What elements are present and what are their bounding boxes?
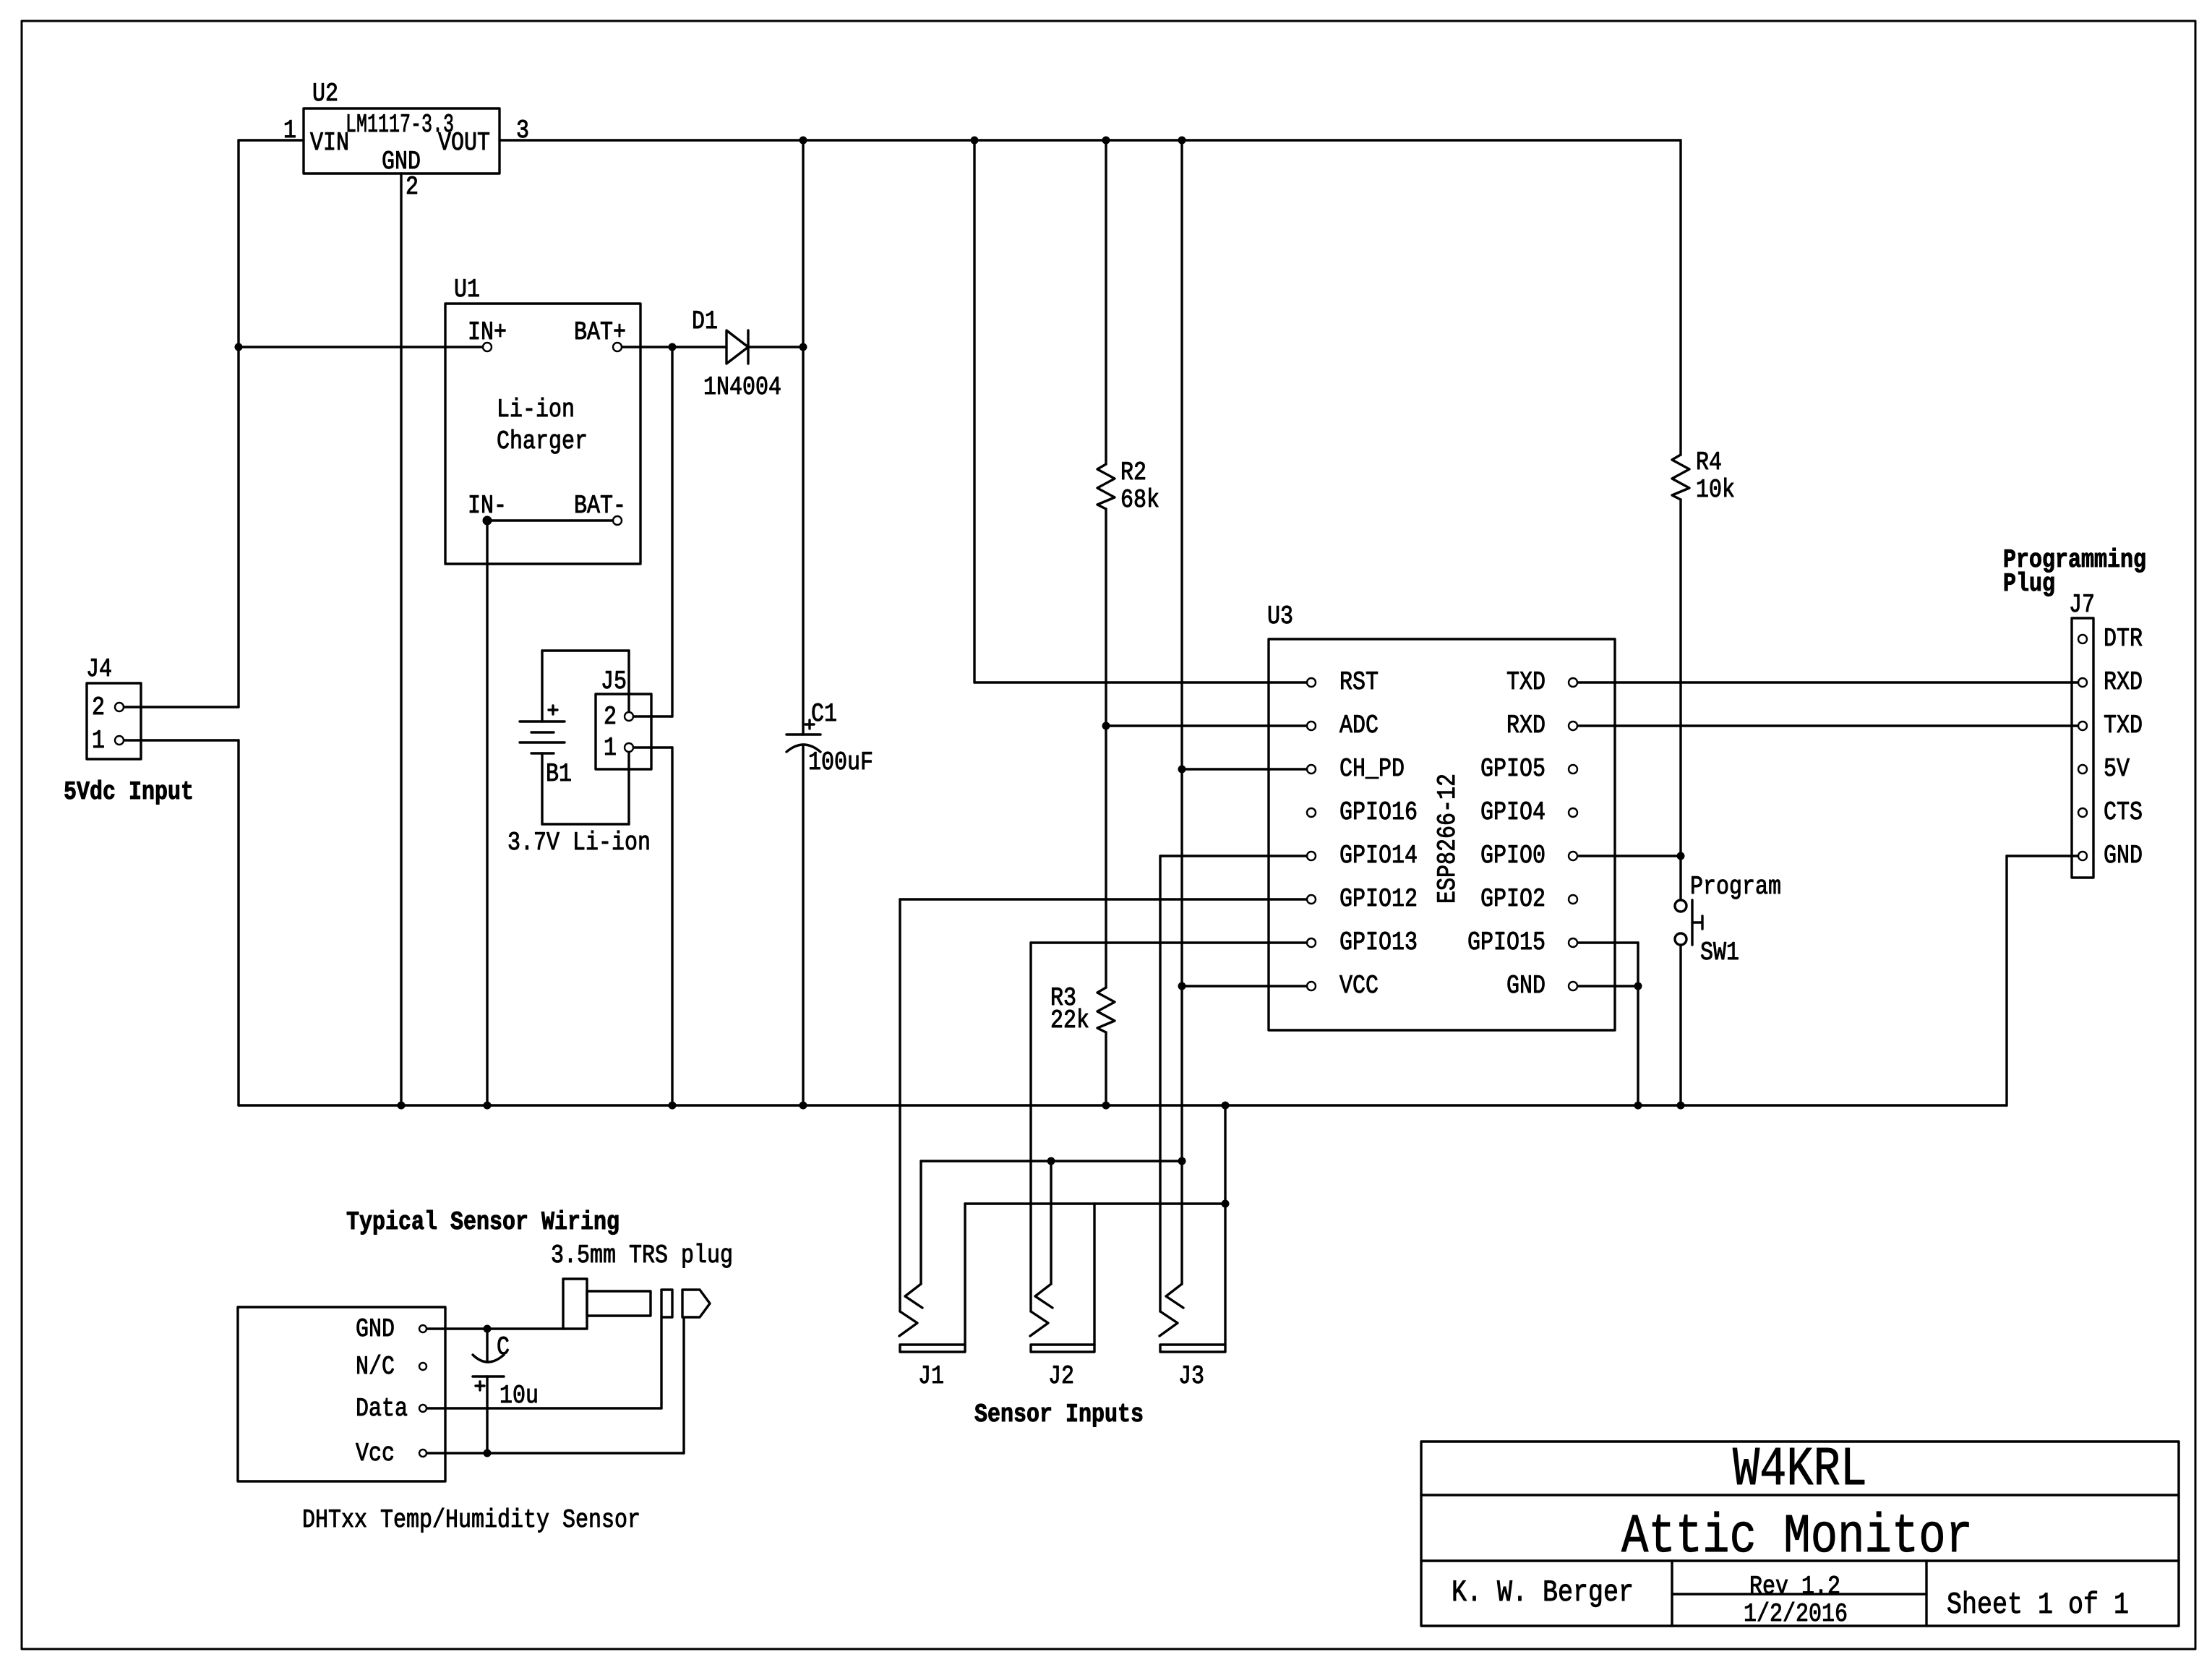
- svg-text:Rev 1.2: Rev 1.2: [1749, 1572, 1840, 1601]
- wire J3 sleeve to ground bus: [1224, 1105, 1226, 1345]
- pin U3 GPIO14: [1307, 852, 1316, 860]
- wire DHT Vcc: [427, 1452, 684, 1454]
- svg-text:GND: GND: [1506, 971, 1546, 1001]
- wire U1 IN- to BAT-: [487, 519, 613, 521]
- svg-text:C: C: [497, 1332, 510, 1362]
- wire U1 IN+ input: [239, 346, 483, 348]
- pin J7 GND: [2078, 852, 2087, 860]
- svg-text:Plug: Plug: [2003, 569, 2055, 599]
- pin U1 IN+: [483, 343, 492, 351]
- wire VCC pin: [1182, 985, 1307, 987]
- junction at 2266,1529: [1634, 1102, 1642, 1110]
- svg-text:DTR: DTR: [2104, 624, 2143, 654]
- pin U3 VCC: [1307, 982, 1316, 990]
- svg-text:2: 2: [604, 702, 617, 732]
- wire J2 ring vertical: [1050, 1161, 1052, 1284]
- wire into J5 pin2 from top: [627, 651, 630, 712]
- svg-text:Charger: Charger: [497, 427, 588, 456]
- pin U3 GPIO13: [1307, 938, 1316, 947]
- wire cap C top: [486, 1329, 488, 1362]
- svg-text:U3: U3: [1267, 601, 1293, 631]
- wire J4 pin2 to VIN vertical: [237, 140, 239, 707]
- wire J5 pin2 to battery node: [633, 715, 672, 717]
- wire J3 ring vertical: [1180, 1161, 1183, 1284]
- wire J4 pin1 to ground bus vertical: [237, 740, 239, 1105]
- pin J7 DTR: [2078, 635, 2087, 643]
- capacitor C bottom plate: [473, 1375, 504, 1378]
- junction at 1454,1606: [1047, 1157, 1055, 1165]
- svg-text:GND: GND: [356, 1314, 395, 1344]
- plug barrel: [587, 1291, 651, 1316]
- wire B1 bottom horizontal: [542, 823, 629, 825]
- pin U1 BAT-: [613, 516, 622, 525]
- svg-text:C1: C1: [811, 699, 837, 729]
- connector J4 body: [87, 683, 141, 759]
- junction at 1695,1529: [1222, 1102, 1230, 1110]
- wire RXD to programming plug: [1577, 724, 2078, 727]
- svg-text:GPIO16: GPIO16: [1339, 797, 1418, 827]
- pin U3 GPIO0: [1569, 852, 1577, 860]
- wire R3 to ground bus: [1105, 1032, 1107, 1105]
- junction at 1111,480: [800, 343, 807, 351]
- wire CH_PD pin: [1182, 768, 1307, 770]
- pin J5-1: [625, 743, 633, 752]
- wire U2 pin1 VIN: [239, 139, 304, 141]
- pin J7 TXD: [2078, 721, 2087, 730]
- wire U1 BAT+ to D1 anode: [622, 346, 726, 348]
- wire GPIO14 to J3 tip: [1159, 856, 1161, 1311]
- jack J1 sleeve plate: [900, 1345, 965, 1352]
- junction at 674,2010: [484, 1450, 492, 1457]
- jack J3 tip contact: [1159, 1311, 1178, 1336]
- junction at 1635,1064: [1178, 766, 1186, 774]
- pin DHT Vcc: [419, 1450, 426, 1457]
- resistor R4: [1672, 455, 1689, 500]
- wire D1 cathode to C1 node: [748, 346, 803, 348]
- junction at 1635,1606: [1178, 1157, 1186, 1165]
- svg-text:68k: 68k: [1120, 485, 1159, 515]
- diode D1 triangle: [726, 330, 748, 364]
- jack J2 tip contact: [1030, 1311, 1048, 1336]
- junction at 1111,1529: [800, 1102, 807, 1110]
- svg-text:Sensor Inputs: Sensor Inputs: [974, 1400, 1144, 1429]
- capacitor C1 top plate: [786, 733, 820, 736]
- wire DHT GND to plug: [427, 1327, 564, 1329]
- svg-text:GND: GND: [2104, 841, 2143, 870]
- svg-text:SW1: SW1: [1700, 938, 1739, 967]
- wire J1 ring vertical: [919, 1161, 922, 1284]
- svg-text:GPIO12: GPIO12: [1339, 884, 1418, 914]
- svg-text:Data: Data: [356, 1394, 408, 1423]
- wire Data to plug ring: [660, 1317, 662, 1408]
- svg-text:RXD: RXD: [2104, 667, 2143, 697]
- capacitor C1 polarity plus: [805, 720, 814, 729]
- pin U1 BAT+: [613, 343, 622, 351]
- svg-text:ADC: ADC: [1339, 711, 1379, 740]
- wire GPIO14 pin: [1160, 855, 1307, 857]
- junction at 930,1529: [669, 1102, 677, 1110]
- svg-text:1/2/2016: 1/2/2016: [1744, 1599, 1848, 1629]
- wire GPIO12 pin: [900, 898, 1307, 900]
- capacitor C polarity plus: [476, 1382, 484, 1390]
- wire J4 pin1 horizontal: [124, 739, 239, 741]
- wire 3.3V rail from U2 VOUT: [500, 139, 1681, 141]
- svg-text:J1: J1: [918, 1361, 944, 1391]
- svg-text:RXD: RXD: [1506, 711, 1546, 740]
- pin U3 GPIO5: [1569, 765, 1577, 774]
- svg-text:DHTxx Temp/Humidity Sensor: DHTxx Temp/Humidity Sensor: [302, 1505, 640, 1535]
- wire J7 GND to ground bus: [2005, 856, 2007, 1105]
- switch SW1 actuator stem: [1692, 916, 1702, 929]
- wire rail to RST vertical: [973, 140, 975, 682]
- svg-text:N/C: N/C: [356, 1352, 395, 1382]
- jack J1 ring contact: [905, 1284, 922, 1308]
- pin J7 5V: [2078, 765, 2087, 774]
- wire sensor sleeve link: [965, 1202, 1225, 1204]
- svg-text:CH_PD: CH_PD: [1339, 754, 1405, 784]
- wire R2 to ADC to R3: [1105, 509, 1107, 988]
- svg-text:GPIO4: GPIO4: [1480, 797, 1546, 827]
- wire U2 pin2 GND vertical: [400, 174, 402, 1105]
- pin J4-2: [115, 703, 124, 711]
- svg-text:GPIO5: GPIO5: [1480, 754, 1546, 784]
- pin J7 RXD: [2078, 678, 2087, 687]
- sensor DHTxx body: [238, 1307, 445, 1481]
- pin U3 RST: [1307, 678, 1316, 687]
- svg-text:GPIO14: GPIO14: [1339, 841, 1418, 870]
- svg-text:TXD: TXD: [1506, 667, 1546, 697]
- junction at 2325,1529: [1677, 1102, 1685, 1110]
- wire GPIO15 to GND vertical: [1637, 943, 1639, 1105]
- jack J1 tip contact: [899, 1311, 917, 1336]
- wire rail corner to R4: [1679, 140, 1681, 455]
- pin J7 CTS: [2078, 808, 2087, 817]
- svg-text:2: 2: [92, 693, 105, 722]
- wire J2 sleeve vertical: [1093, 1204, 1095, 1345]
- wire B1 positive vertical: [541, 651, 543, 721]
- wire GPIO15 pin: [1577, 941, 1638, 943]
- wire sensor VCC distribution: [921, 1160, 1182, 1162]
- pin U3 GND: [1569, 982, 1577, 990]
- junction at 1635,1364: [1178, 982, 1186, 990]
- jack J3 ring contact: [1166, 1284, 1183, 1308]
- plug tip: [682, 1290, 710, 1317]
- svg-text:3.5mm TRS plug: 3.5mm TRS plug: [551, 1241, 733, 1270]
- junction at 330,480: [235, 343, 243, 351]
- junction at 1695,1665: [1222, 1200, 1230, 1208]
- regulator U2 body: [304, 108, 500, 174]
- wire B1 top horizontal: [542, 649, 629, 651]
- svg-text:J5: J5: [601, 667, 627, 696]
- charger U1 body: [445, 304, 640, 564]
- junction at 1348,194: [971, 137, 979, 145]
- wire C1 bottom vertical: [802, 745, 804, 1105]
- pin J4-1: [115, 736, 124, 745]
- svg-text:10k: 10k: [1696, 475, 1735, 505]
- svg-text:GPIO2: GPIO2: [1480, 884, 1546, 914]
- wire J4 pin2 horizontal: [124, 706, 239, 708]
- wire J7 GND pin: [2007, 855, 2078, 857]
- svg-text:R2: R2: [1120, 458, 1146, 487]
- title block outline: [1421, 1442, 2179, 1626]
- svg-text:100uF: 100uF: [808, 748, 873, 777]
- plug body: [563, 1279, 587, 1329]
- pin U3 CH_PD: [1307, 765, 1316, 774]
- wire R4 to GPIO0 to SW1: [1679, 500, 1681, 900]
- svg-text:1N4004: 1N4004: [703, 372, 781, 402]
- pin U3 GPIO4: [1569, 808, 1577, 817]
- svg-text:Attic Monitor: Attic Monitor: [1621, 1506, 1973, 1568]
- plug ring segment: [661, 1290, 672, 1317]
- pin U1 IN- junction: [483, 516, 492, 526]
- junction at 2266,1364: [1634, 982, 1642, 990]
- svg-text:10u: 10u: [500, 1381, 539, 1410]
- junction at 555,1529: [398, 1102, 406, 1110]
- wire J1 sleeve vertical: [964, 1204, 966, 1345]
- svg-text:R4: R4: [1696, 448, 1722, 477]
- connector J5 body: [596, 694, 651, 769]
- svg-text:1: 1: [283, 116, 296, 145]
- svg-text:Sheet 1 of 1: Sheet 1 of 1: [1947, 1588, 2129, 1622]
- wire U1 IN- to ground bus: [486, 521, 488, 1105]
- junction at 1635,194: [1178, 137, 1186, 145]
- battery B1 plate short 2: [531, 752, 554, 754]
- pin U3 GPIO12: [1307, 895, 1316, 904]
- wire rail to CH_PD/VCC vertical: [1180, 140, 1183, 1161]
- svg-text:GPIO15: GPIO15: [1467, 928, 1546, 957]
- module U3 body: [1269, 639, 1615, 1030]
- wire into J5 pin1 from bottom: [627, 752, 630, 824]
- wire battery node vertical: [671, 347, 673, 716]
- wire ADC pin: [1106, 724, 1307, 727]
- wire GPIO12 to J1 tip: [899, 899, 901, 1311]
- svg-text:VCC: VCC: [1339, 971, 1379, 1001]
- pin U3 TXD: [1569, 678, 1577, 687]
- connector J7 body: [2072, 618, 2093, 878]
- junction at 674,1838: [484, 1325, 492, 1333]
- junction at 930,480: [669, 343, 677, 351]
- wire GPIO0 pin: [1577, 855, 1681, 857]
- wire rail to R2: [1105, 140, 1107, 464]
- pin U3 ADC: [1307, 721, 1316, 730]
- switch SW1 contact bottom: [1675, 933, 1686, 945]
- wire U3 GND pin: [1577, 985, 1638, 987]
- battery B1 plate short 1: [531, 731, 554, 733]
- svg-text:RST: RST: [1339, 667, 1379, 697]
- wire GPIO13 to J2 tip: [1029, 943, 1032, 1311]
- junction at 1530,1004: [1102, 722, 1110, 730]
- svg-text:1: 1: [92, 726, 105, 755]
- svg-text:GPIO0: GPIO0: [1480, 841, 1546, 870]
- title block column divider left: [1671, 1561, 1673, 1626]
- wire GPIO13 pin: [1031, 941, 1307, 943]
- wire J5 pin1 right: [633, 746, 672, 748]
- battery B1 plate long 2: [520, 741, 565, 743]
- switch SW1 contact top: [1675, 900, 1686, 912]
- svg-text:GPIO13: GPIO13: [1339, 928, 1418, 957]
- svg-text:D1: D1: [692, 307, 718, 336]
- svg-text:U1: U1: [454, 275, 480, 304]
- svg-text:VIN: VIN: [310, 128, 349, 158]
- title block divider 1: [1421, 1494, 2179, 1496]
- title block column divider right: [1925, 1561, 1927, 1626]
- capacitor C curved plate: [473, 1355, 504, 1362]
- svg-text:5Vdc Input: 5Vdc Input: [64, 777, 194, 807]
- svg-text:CTS: CTS: [2104, 797, 2143, 827]
- svg-text:J3: J3: [1178, 1361, 1204, 1391]
- pin U3 RXD: [1569, 721, 1577, 730]
- pin DHT GND: [419, 1325, 426, 1332]
- wire RST pin: [974, 681, 1307, 683]
- title block divider 2: [1421, 1559, 2179, 1562]
- wire C1 top vertical: [802, 140, 804, 735]
- pin U3 GPIO15: [1569, 938, 1577, 947]
- pin DHT Data: [419, 1405, 426, 1412]
- jack J3 sleeve plate: [1160, 1345, 1225, 1352]
- wire cap C bottom: [486, 1376, 488, 1453]
- resistor R3: [1097, 988, 1115, 1032]
- svg-text:Program: Program: [1690, 872, 1781, 902]
- svg-text:3: 3: [516, 116, 529, 145]
- junction at 2325,1184: [1677, 852, 1685, 860]
- pin U3 GPIO2: [1569, 895, 1577, 904]
- junction at 1530,1529: [1102, 1102, 1110, 1110]
- wire ground bus: [239, 1104, 2007, 1106]
- svg-text:1: 1: [604, 733, 617, 763]
- svg-text:22k: 22k: [1050, 1006, 1089, 1035]
- junction at 674,1529: [484, 1102, 492, 1110]
- svg-text:J7: J7: [2069, 590, 2095, 620]
- wire Vcc to plug tip: [682, 1317, 685, 1453]
- capacitor C1 curved plate: [786, 745, 820, 752]
- wire B1 negative vertical: [541, 753, 543, 824]
- wire DHT Data: [427, 1407, 661, 1409]
- wire J5 pin1 to ground bus: [671, 748, 673, 1105]
- svg-text:5V: 5V: [2104, 754, 2130, 784]
- svg-text:W4KRL: W4KRL: [1733, 1439, 1867, 1501]
- junction at 1111,194: [800, 137, 807, 145]
- svg-text:K. W. Berger: K. W. Berger: [1452, 1575, 1634, 1610]
- svg-text:Li-ion: Li-ion: [497, 395, 575, 424]
- battery B1 plate long 1: [520, 720, 565, 722]
- pin U3 GPIO16: [1307, 808, 1316, 817]
- svg-text:TXD: TXD: [2104, 711, 2143, 740]
- svg-text:VOUT: VOUT: [438, 128, 490, 158]
- resistor R2: [1097, 464, 1115, 509]
- wire SW1 to ground bus: [1679, 945, 1681, 1105]
- svg-text:J4: J4: [86, 654, 112, 684]
- svg-text:Vcc: Vcc: [356, 1439, 395, 1468]
- svg-text:U2: U2: [312, 79, 338, 108]
- switch SW1 actuator bar: [1691, 900, 1693, 945]
- junction at 1530,194: [1102, 137, 1110, 145]
- jack J2 ring contact: [1035, 1284, 1053, 1308]
- svg-text:3.7V Li-ion: 3.7V Li-ion: [507, 828, 651, 857]
- pin J5-2: [625, 712, 633, 721]
- battery B1 polarity plus: [549, 706, 557, 714]
- svg-text:J2: J2: [1048, 1361, 1074, 1391]
- title block rev/date divider: [1672, 1593, 1926, 1595]
- pin DHT N/C: [419, 1363, 426, 1370]
- svg-text:Typical Sensor Wiring: Typical Sensor Wiring: [346, 1207, 620, 1237]
- jack J2 sleeve plate: [1031, 1345, 1094, 1352]
- svg-text:B1: B1: [546, 759, 572, 789]
- svg-text:2: 2: [406, 172, 419, 202]
- diode D1 cathode bar: [747, 330, 749, 364]
- svg-text:ESP8266-12: ESP8266-12: [1433, 774, 1462, 904]
- wire TXD to programming plug: [1577, 681, 2078, 683]
